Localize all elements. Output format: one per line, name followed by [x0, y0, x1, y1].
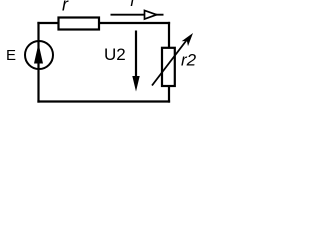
wire bottom: [39, 100, 170, 102]
voltage arrow U2: [132, 31, 139, 92]
r2 adjustment arrow: [152, 39, 188, 86]
resistor r2 (variable): [152, 33, 193, 86]
svg-text:I: I: [130, 0, 135, 10]
wire top: [39, 22, 170, 24]
svg-text:r2: r2: [181, 51, 197, 70]
svg-text:r: r: [62, 0, 69, 15]
resistor r: [59, 18, 100, 30]
svg-text:U2: U2: [104, 45, 126, 64]
wire left vertical: [37, 23, 39, 102]
current arrow I: [111, 10, 164, 19]
wire right vertical: [168, 23, 170, 102]
source E (circle with arrow): [25, 41, 53, 69]
svg-text:E: E: [6, 47, 16, 64]
